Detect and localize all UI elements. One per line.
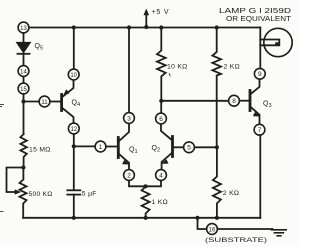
wire Q3 base rail <box>161 100 228 102</box>
svg-text:8: 8 <box>232 98 236 105</box>
pin 13 node <box>18 22 29 33</box>
wire left column node tee to 15M <box>23 102 25 135</box>
svg-text:(SUBSTRATE): (SUBSTRATE) <box>205 237 267 244</box>
svg-text:LAMP G I 2I59D: LAMP G I 2I59D <box>219 8 291 15</box>
junction top rail / 2K branch <box>215 25 219 29</box>
pin 6 node <box>156 113 167 124</box>
svg-text:15 MΩ: 15 MΩ <box>29 146 51 153</box>
junction top rail / node3 branch <box>127 25 131 29</box>
wire node1 to Q1 base <box>106 146 117 148</box>
junction bottom rail / 2K <box>215 216 219 220</box>
wire node12 to cap tee <box>73 134 75 146</box>
pin 5 node <box>184 142 195 153</box>
pin 14 node <box>18 66 29 77</box>
svg-text:2: 2 <box>127 172 131 179</box>
transistor Q1 <box>118 123 130 169</box>
transistor Q2 <box>161 124 184 170</box>
pin 7 node <box>254 124 265 135</box>
svg-text:5 μF: 5 μF <box>82 191 97 198</box>
resistor R 1K <box>142 186 150 218</box>
wire top rail to node3 <box>128 28 130 113</box>
svg-text:3: 3 <box>127 115 131 122</box>
wire node13 to diode <box>23 33 25 42</box>
svg-text:2 KΩ: 2 KΩ <box>223 190 239 197</box>
wire rheostat wiper loop <box>7 168 24 193</box>
resistor R 15M <box>20 134 26 168</box>
junction 1K tee <box>144 184 148 188</box>
svg-text:14: 14 <box>20 69 27 75</box>
junction bottom rail / cap <box>72 216 76 220</box>
svg-text:12: 12 <box>70 127 77 133</box>
potentiometer R 500K <box>20 168 27 218</box>
svg-text:11: 11 <box>41 100 48 106</box>
svg-text:500 KΩ: 500 KΩ <box>29 191 53 198</box>
pin 16 node <box>207 224 218 235</box>
wire 10K tee to node6 <box>160 101 162 113</box>
transistor Q3 <box>250 79 260 124</box>
pin 2 node <box>124 170 135 181</box>
junction 10K / Q3 base wire <box>159 99 163 103</box>
junction bottom rail / substrate drop <box>195 216 199 220</box>
svg-text:6: 6 <box>159 116 163 123</box>
wire +5V top rail <box>29 27 260 29</box>
junction cap tee <box>72 144 76 148</box>
wire emitters of Q1 Q2 to 1K tee <box>129 180 161 186</box>
ground symbol <box>272 230 287 236</box>
wire node5 to 2K line <box>194 146 217 148</box>
svg-text:10 KΩ: 10 KΩ <box>167 64 188 71</box>
svg-text:2 KΩ: 2 KΩ <box>224 64 240 71</box>
svg-text:1 KΩ: 1 KΩ <box>152 199 168 206</box>
junction node5 wire / 2K line <box>215 145 219 149</box>
svg-text:4: 4 <box>159 172 163 179</box>
pin 12 node <box>68 123 79 134</box>
rheostat wiper arrow <box>15 189 22 194</box>
resistor R 2K lower with leads <box>213 147 221 218</box>
svg-text:15: 15 <box>20 87 27 93</box>
pin 4 node <box>156 170 167 181</box>
wire node15 to base tee <box>23 94 25 102</box>
wire node11 to Q4 base <box>50 101 60 103</box>
svg-text:13: 13 <box>20 26 27 32</box>
resistor R 10K with leads <box>157 28 166 101</box>
lamp DS1 leadin <box>259 28 261 69</box>
svg-text:1: 1 <box>99 144 103 151</box>
pin 15 node <box>18 83 29 94</box>
diode Q5 <box>17 43 31 66</box>
scan artifact marks <box>0 74 170 212</box>
junction top rail / 10K branch <box>159 25 163 29</box>
wire node14 to node15 <box>23 76 25 83</box>
junction bottom rail / 1K <box>144 216 148 220</box>
wire top rail to node10 <box>73 28 75 70</box>
resistor R 2K upper with leads <box>212 28 221 148</box>
pin 8 node <box>229 95 240 106</box>
pin 3 node <box>124 113 135 124</box>
wire node7 to bottom rail and bottom rail right corner <box>259 135 261 218</box>
pin 10 node <box>68 69 79 80</box>
lamp DS1 <box>260 28 292 56</box>
svg-text:10: 10 <box>70 73 77 79</box>
pin 9 node <box>254 68 265 79</box>
svg-text:7: 7 <box>258 127 262 134</box>
svg-text:+5 V: +5 V <box>152 9 170 16</box>
capacitor C1 <box>67 190 80 218</box>
wire bottom rail <box>23 217 260 219</box>
capacitor C1 top lead <box>73 146 75 190</box>
wire node8 to Q3 base <box>239 100 248 102</box>
power +5V arrow <box>144 9 150 27</box>
svg-text:OR EQUIVALENT: OR EQUIVALENT <box>226 16 292 23</box>
wire substrate drop to node16 <box>198 218 207 229</box>
wire tee to node1 <box>74 145 95 147</box>
wire node16 to ground <box>217 228 272 230</box>
pin 1 node <box>95 141 106 152</box>
svg-text:9: 9 <box>258 71 262 78</box>
wire tee to node11 <box>24 101 40 103</box>
junction top rail / Q4 branch <box>72 25 76 29</box>
svg-text:5: 5 <box>187 145 191 152</box>
svg-text:16: 16 <box>209 227 216 233</box>
junction pot tee <box>21 165 25 169</box>
junction base tee <box>21 99 25 103</box>
junction top rail / +5V arrow <box>144 25 148 29</box>
pin 11 node <box>39 96 50 107</box>
transistor Q4 <box>62 80 74 123</box>
